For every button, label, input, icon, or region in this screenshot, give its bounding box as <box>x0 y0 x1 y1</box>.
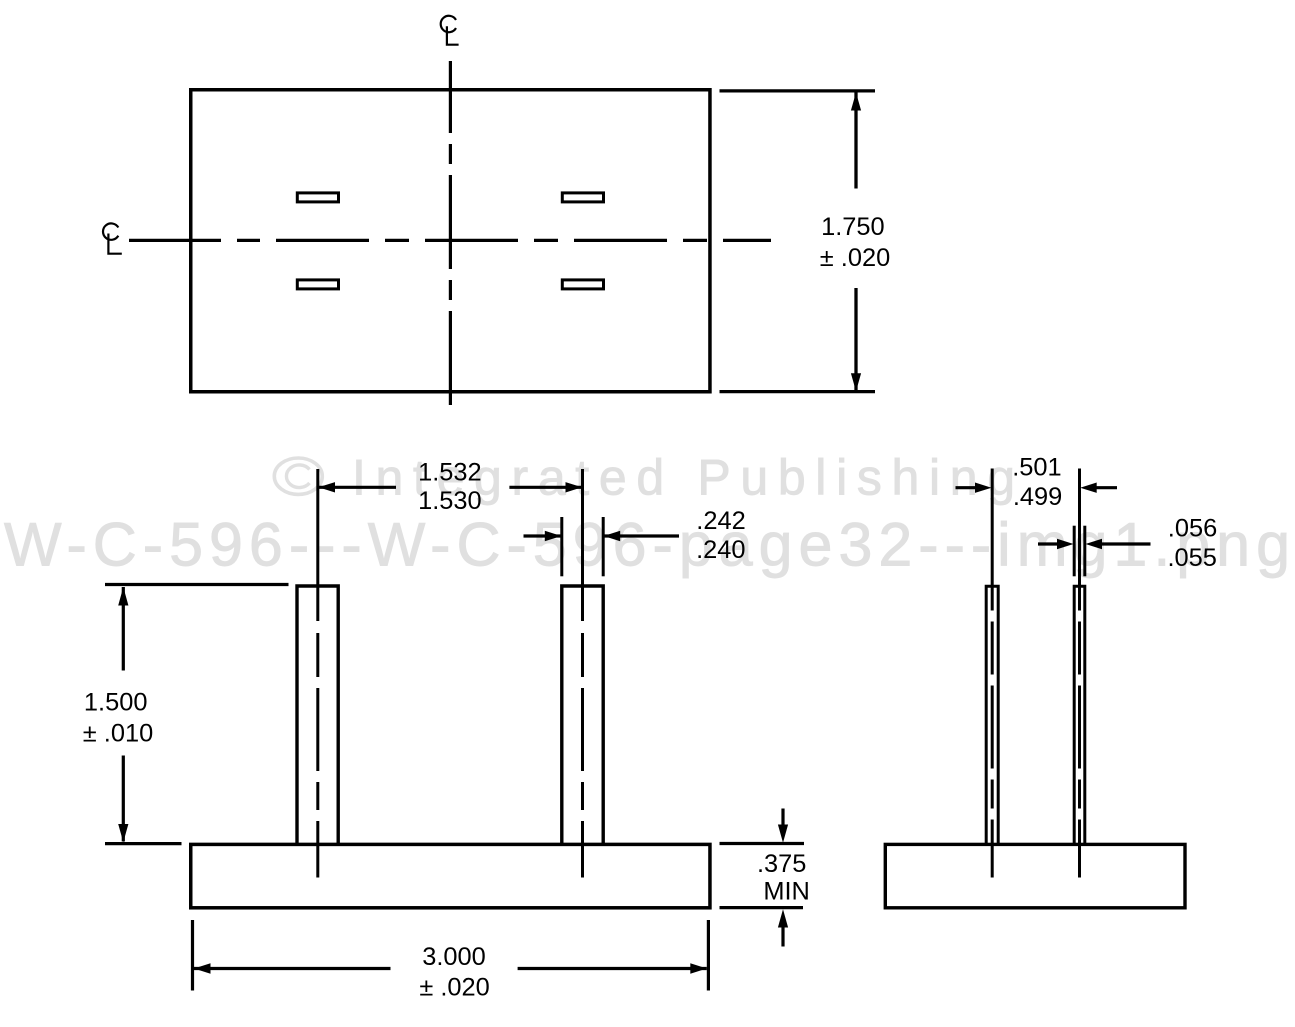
svg-text:.056: .056 <box>1168 515 1217 543</box>
svg-text:.375: .375 <box>757 850 806 878</box>
svg-text:1.500: 1.500 <box>84 688 148 716</box>
svg-text:.055: .055 <box>1167 544 1216 572</box>
svg-text:.240: .240 <box>696 536 745 564</box>
svg-text:.501: .501 <box>1012 454 1061 482</box>
svg-text:± .020: ± .020 <box>820 244 890 272</box>
svg-text:1.530: 1.530 <box>418 487 482 515</box>
svg-text:± .020: ± .020 <box>419 974 489 1002</box>
svg-text:MIN: MIN <box>763 878 810 906</box>
svg-text:1.750: 1.750 <box>821 213 885 241</box>
svg-text:± .010: ± .010 <box>83 720 153 748</box>
svg-text:1.532: 1.532 <box>418 459 482 487</box>
svg-text:3.000: 3.000 <box>422 943 486 971</box>
svg-text:.499: .499 <box>1013 483 1062 511</box>
svg-text:.242: .242 <box>696 507 745 535</box>
